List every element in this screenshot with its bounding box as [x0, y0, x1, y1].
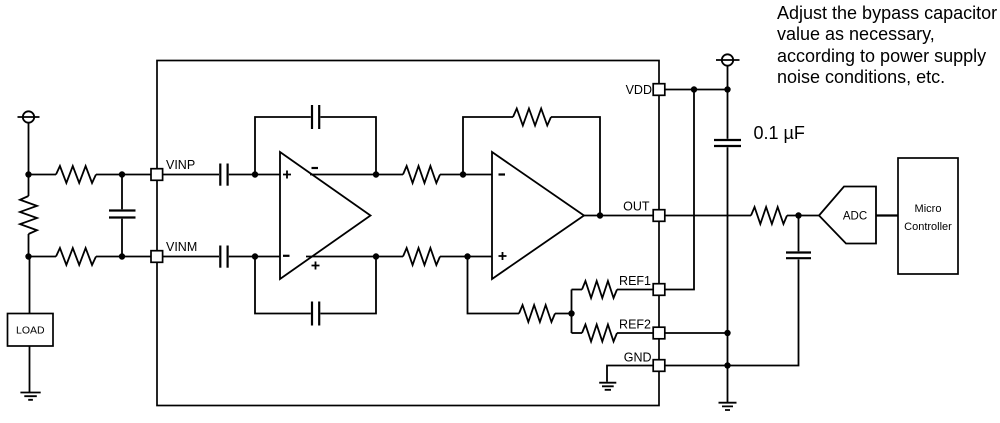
svg-text:VINM: VINM: [166, 240, 197, 254]
svg-text:LOAD: LOAD: [16, 325, 45, 337]
svg-text:VDD: VDD: [626, 83, 652, 97]
svg-text:0.1 µF: 0.1 µF: [754, 123, 805, 143]
svg-text:Micro: Micro: [915, 203, 942, 215]
svg-text:REF1: REF1: [619, 274, 651, 288]
svg-text:Controller: Controller: [904, 221, 952, 233]
svg-text:VINP: VINP: [166, 158, 195, 172]
svg-text:ADC: ADC: [843, 211, 867, 223]
svg-text:OUT: OUT: [623, 200, 650, 214]
svg-text:REF2: REF2: [619, 318, 651, 332]
svg-text:GND: GND: [624, 351, 652, 365]
